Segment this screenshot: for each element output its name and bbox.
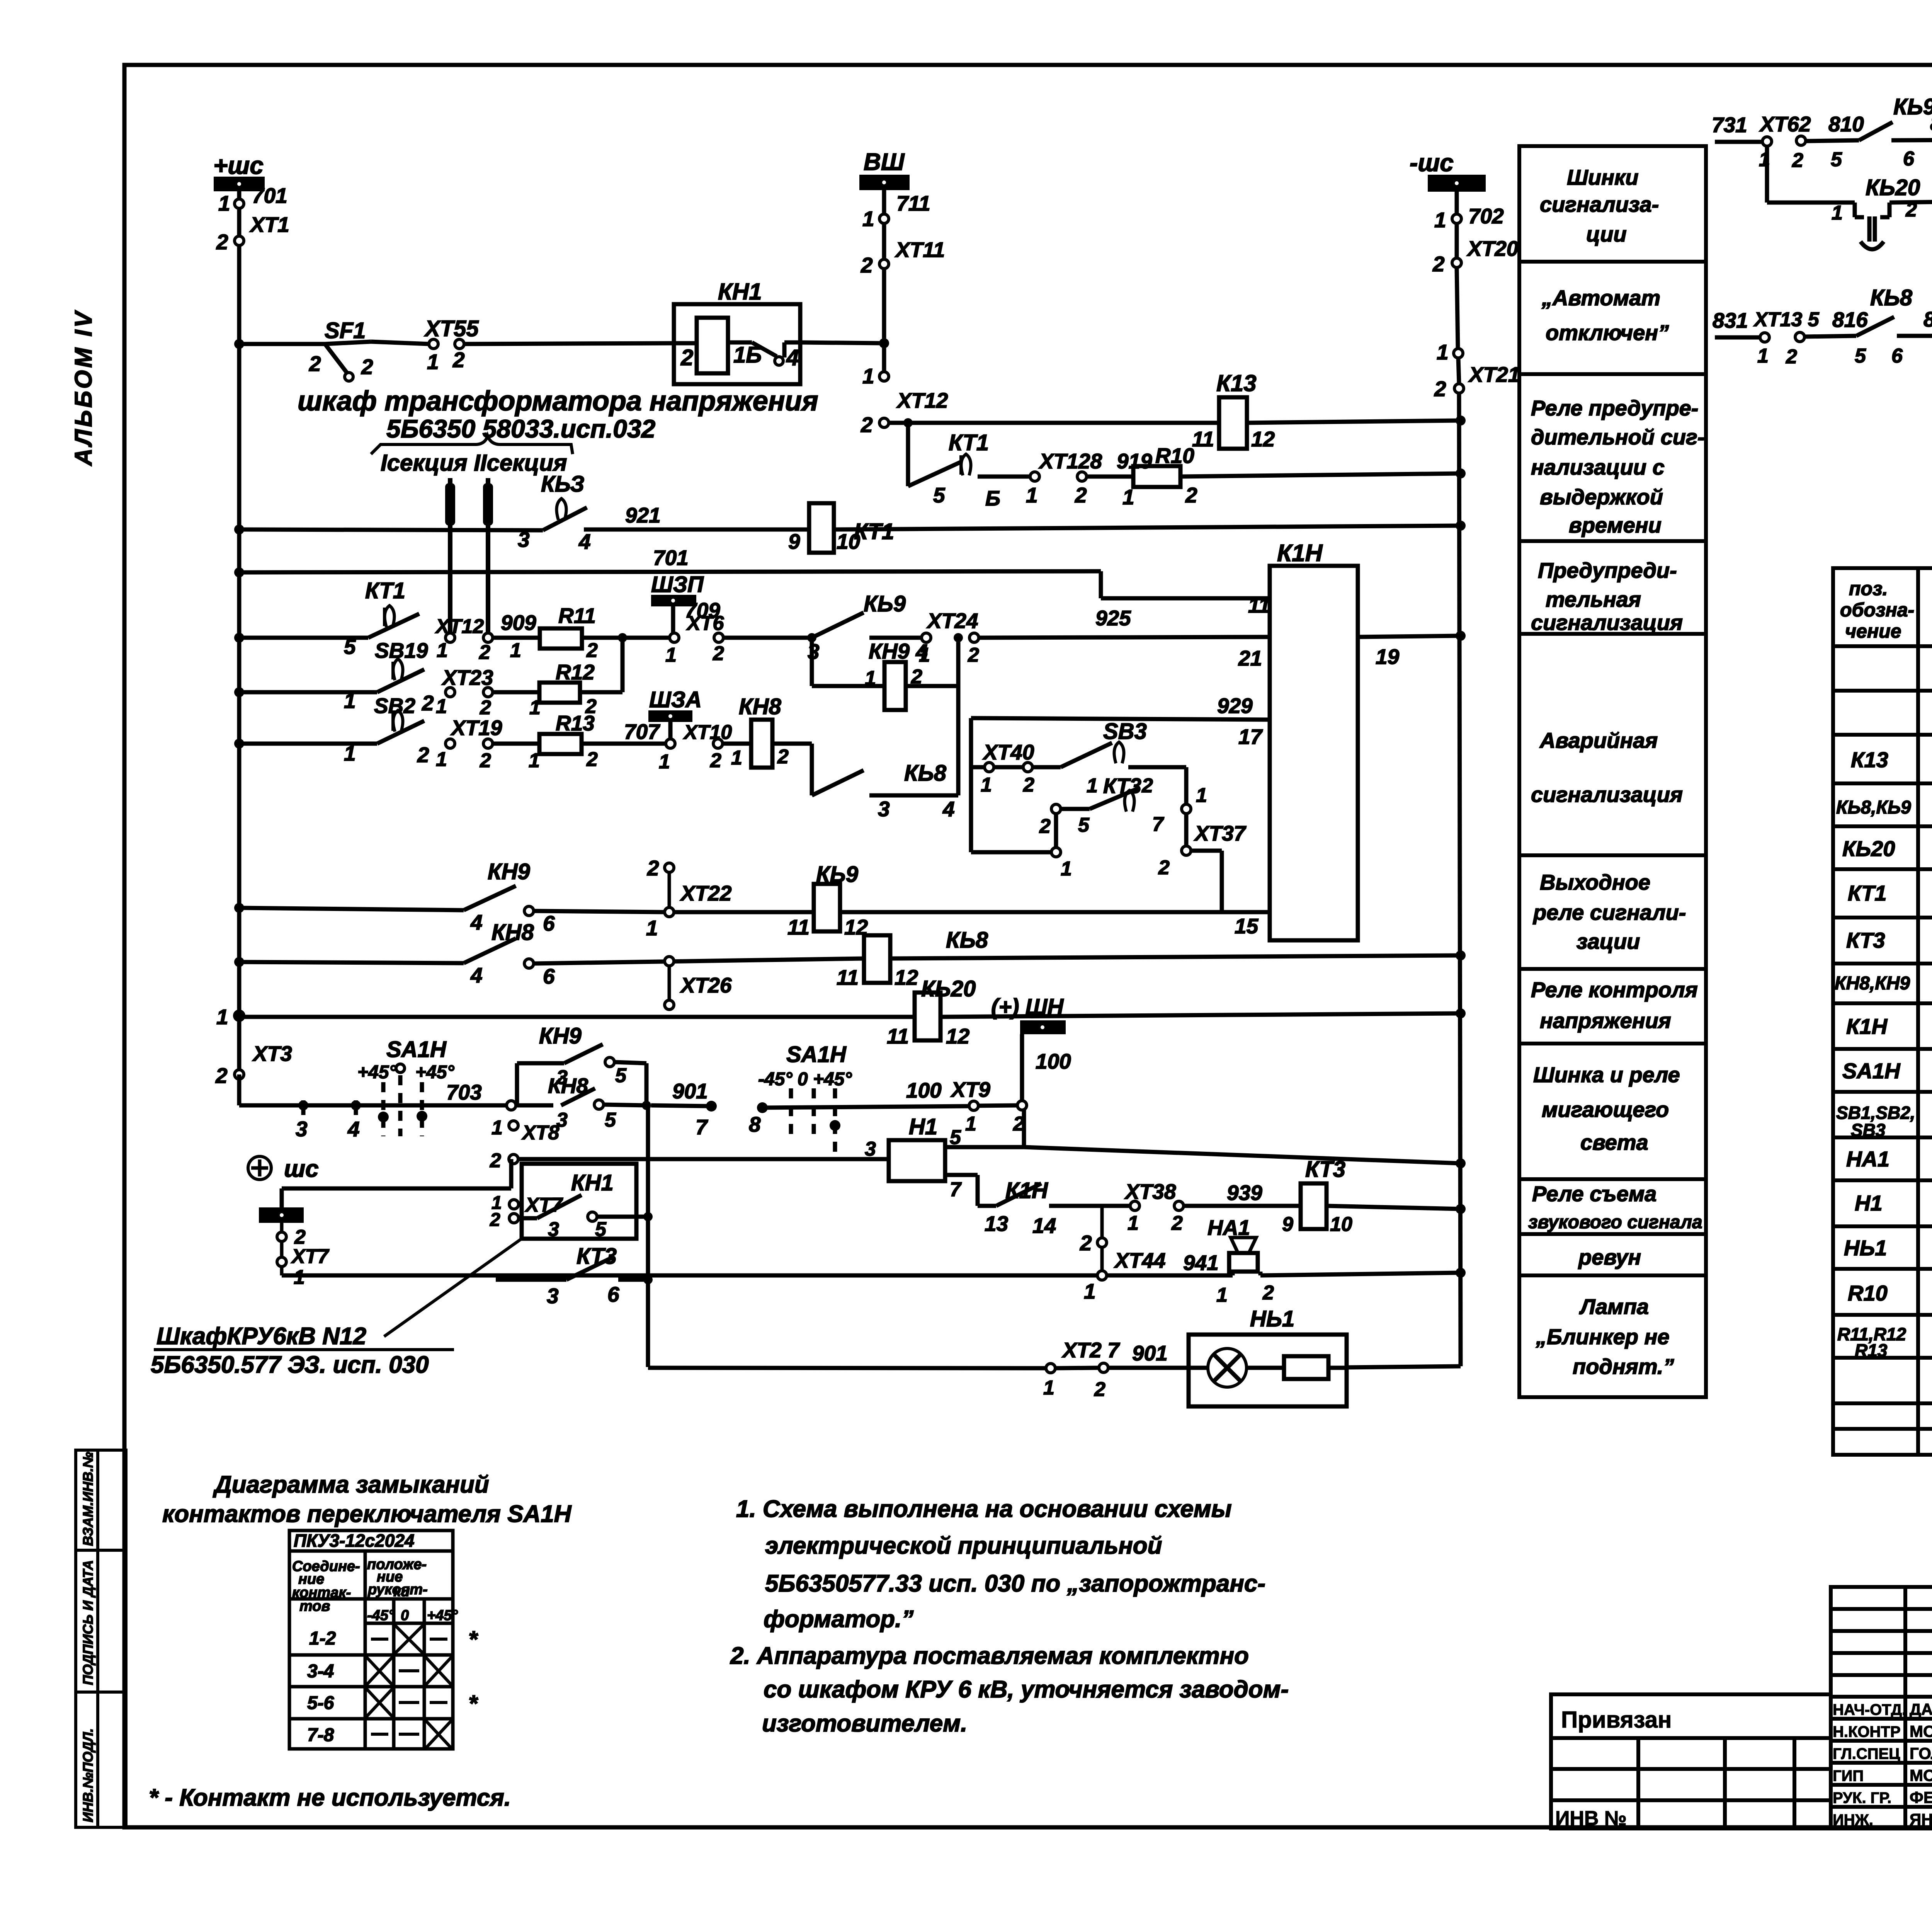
svg-text:реле сигнали-: реле сигнали- bbox=[1532, 900, 1686, 924]
svg-text:SВ3: SВ3 bbox=[1851, 1120, 1886, 1140]
svg-text:КН9: КН9 bbox=[539, 1023, 582, 1049]
svg-text:ВШ: ВШ bbox=[864, 149, 905, 175]
switch diagram table ПКУ3-12С2024 bbox=[289, 1531, 453, 1749]
wire top row 731 KL9 bbox=[1715, 139, 1932, 142]
svg-text:форматор.”: форматор.” bbox=[764, 1606, 913, 1633]
svg-text:11: 11 bbox=[1192, 427, 1214, 451]
svg-text:+45°: +45° bbox=[357, 1062, 396, 1083]
wire row8 bbox=[239, 742, 377, 746]
svg-text:1: 1 bbox=[862, 207, 874, 231]
svg-text:1: 1 bbox=[344, 741, 356, 765]
svg-text:3: 3 bbox=[556, 1109, 568, 1131]
wire bbox=[534, 911, 665, 912]
svg-text:SВ3: SВ3 bbox=[1103, 719, 1147, 744]
wire: left bus vertical bbox=[237, 191, 241, 1105]
notes text bbox=[730, 1496, 1289, 1737]
contact KH8 (4-6) bbox=[464, 920, 555, 988]
wire to ShZP stem bbox=[582, 636, 670, 640]
svg-text:2: 2 bbox=[710, 749, 721, 772]
ВШ supply bar bbox=[859, 149, 910, 190]
svg-text:7: 7 bbox=[950, 1178, 962, 1201]
feeder I секция bbox=[445, 478, 455, 638]
svg-text:2: 2 bbox=[713, 642, 724, 665]
svg-text:ХТ6: ХТ6 bbox=[686, 612, 724, 635]
wire right bus upper bbox=[1457, 267, 1458, 349]
svg-text:НЬ1: НЬ1 bbox=[1844, 1236, 1887, 1260]
svg-text:ХТ9: ХТ9 bbox=[950, 1078, 990, 1102]
svg-text:2: 2 bbox=[1262, 1282, 1274, 1304]
terminal XT27 bbox=[1043, 1338, 1168, 1401]
svg-text:ХТ22: ХТ22 bbox=[680, 881, 732, 905]
svg-text:ХТ40: ХТ40 bbox=[982, 740, 1034, 764]
svg-text:КН9: КН9 bbox=[869, 639, 910, 663]
wire bbox=[1087, 475, 1133, 479]
svg-text:ИНВ.№ПОДЛ.: ИНВ.№ПОДЛ. bbox=[80, 1728, 96, 1822]
svg-text:Шинка и реле: Шинка и реле bbox=[1533, 1062, 1680, 1087]
svg-text:ХТ7: ХТ7 bbox=[291, 1245, 329, 1268]
relay box KH1 (KRU cabinet) bbox=[490, 1164, 648, 1241]
row КЬ8,КЬ9 РП-23 bbox=[1836, 789, 1932, 818]
svg-text:19: 19 bbox=[1376, 645, 1400, 669]
heading Диаграмма замыканий bbox=[162, 1471, 572, 1527]
svg-text:1: 1 bbox=[919, 644, 930, 666]
svg-text:ПКУ3-12с2024: ПКУ3-12с2024 bbox=[294, 1531, 415, 1551]
svg-text:5Б6350.577 ЭЗ. исп. 030: 5Б6350.577 ЭЗ. исп. 030 bbox=[151, 1352, 429, 1378]
wire bbox=[371, 342, 429, 344]
svg-text:1: 1 bbox=[510, 639, 521, 662]
table header bbox=[1840, 578, 1932, 642]
svg-text:зации: зации bbox=[1577, 929, 1640, 953]
row R11,R12,R13 резистор bbox=[1837, 1324, 1932, 1360]
svg-text:7-8: 7-8 bbox=[307, 1725, 334, 1745]
svg-text:1: 1 bbox=[216, 1005, 228, 1029]
svg-text:2: 2 bbox=[680, 345, 693, 370]
wire row10 KH8 bbox=[239, 962, 464, 963]
bus bar ШН bbox=[991, 994, 1071, 1103]
switch SA1H section 7-8 (dashed) bbox=[749, 1042, 969, 1154]
terminal XT6 bbox=[665, 612, 724, 666]
svg-text:электрической принципиальной: электрической принципиальной bbox=[765, 1532, 1162, 1559]
contact KL3 bbox=[518, 472, 591, 553]
wire K1H pin19 to right bus bbox=[1358, 636, 1461, 637]
svg-text:2: 2 bbox=[861, 253, 873, 277]
svg-text:* - Контакт не используется: * - Контакт не используется. bbox=[149, 1784, 511, 1811]
relay coil KT3 (9-10) bbox=[1282, 1157, 1352, 1236]
terminal XT44 bbox=[1080, 1206, 1219, 1303]
svg-text:1: 1 bbox=[1832, 202, 1843, 224]
svg-text:6: 6 bbox=[543, 911, 555, 935]
title block texts bbox=[1555, 1700, 1932, 1830]
svg-text:поднят.”: поднят.” bbox=[1573, 1354, 1674, 1379]
horn HA1 bbox=[1207, 1216, 1274, 1306]
svg-text:12: 12 bbox=[946, 1024, 970, 1048]
svg-text:1Б: 1Б bbox=[733, 342, 762, 368]
svg-text:Привязан: Привязан bbox=[1561, 1707, 1672, 1733]
svg-text:4: 4 bbox=[470, 963, 483, 987]
terminal XT21 bbox=[1434, 340, 1520, 401]
svg-text:5: 5 bbox=[950, 1126, 961, 1149]
button SB1 bbox=[344, 710, 429, 767]
svg-text:чение: чение bbox=[1845, 620, 1901, 642]
svg-text:1: 1 bbox=[1043, 1377, 1054, 1399]
svg-text:+45°: +45° bbox=[427, 1607, 458, 1624]
bus bar ШЗА bbox=[624, 687, 702, 744]
svg-text:ГИП: ГИП bbox=[1833, 1767, 1864, 1784]
svg-text:2: 2 bbox=[1792, 149, 1803, 172]
svg-text:-45° 0 +45°: -45° 0 +45° bbox=[758, 1069, 852, 1090]
svg-text:100: 100 bbox=[906, 1078, 942, 1102]
relay box K1H bbox=[1270, 540, 1358, 940]
wire riser joining rows bbox=[956, 638, 961, 795]
wire bbox=[674, 910, 814, 914]
breaker SF1 bbox=[309, 318, 373, 381]
svg-text:Предупреди-: Предупреди- bbox=[1538, 558, 1677, 582]
brace and секция labels bbox=[371, 436, 573, 476]
svg-text:11: 11 bbox=[837, 965, 859, 989]
svg-text:ФЕДОРОВА: ФЕДОРОВА bbox=[1910, 1788, 1932, 1806]
svg-text:2: 2 bbox=[1432, 252, 1445, 276]
svg-text:НЬ1: НЬ1 bbox=[1250, 1306, 1294, 1331]
terminal XT10 bbox=[659, 721, 732, 773]
svg-text:тельная: тельная bbox=[1546, 587, 1641, 611]
relay coil K13 bbox=[1192, 370, 1275, 451]
svg-text:12: 12 bbox=[895, 965, 918, 989]
svg-text:15: 15 bbox=[1235, 914, 1259, 938]
terminal XT38 bbox=[1124, 1180, 1262, 1234]
time contact KT3 with XT37 bbox=[1039, 784, 1247, 912]
svg-text:6: 6 bbox=[1891, 345, 1903, 367]
terminal XT23 bbox=[436, 666, 493, 719]
svg-text:ХТ8: ХТ8 bbox=[521, 1122, 559, 1144]
svg-text:1: 1 bbox=[294, 1266, 305, 1289]
node dots on left bus bbox=[234, 339, 244, 1022]
svg-text:КЬ8,КЬ9: КЬ8,КЬ9 bbox=[1836, 797, 1911, 818]
svg-text:925: 925 bbox=[1095, 606, 1131, 630]
wire bbox=[1184, 1204, 1301, 1208]
wire 939 row bbox=[978, 1175, 996, 1206]
svg-text:К13: К13 bbox=[1851, 747, 1888, 772]
svg-text:3-4: 3-4 bbox=[307, 1661, 334, 1682]
svg-text:1: 1 bbox=[1087, 775, 1098, 797]
bus bar ШЗП bbox=[651, 572, 720, 634]
contact KT3 (3-6) bbox=[496, 1244, 648, 1308]
svg-text:5-6: 5-6 bbox=[307, 1693, 334, 1713]
svg-text:КН8: КН8 bbox=[739, 694, 782, 719]
row Н1 Прерыватель bbox=[1855, 1191, 1932, 1218]
row SA1H Переключатель bbox=[1842, 1057, 1932, 1083]
svg-text:4: 4 bbox=[470, 910, 483, 934]
svg-text:1: 1 bbox=[665, 644, 677, 666]
svg-text:ХТ2 7: ХТ2 7 bbox=[1061, 1338, 1120, 1362]
svg-text:ХТ23: ХТ23 bbox=[441, 666, 493, 690]
svg-text:2: 2 bbox=[1039, 815, 1051, 838]
svg-text:R10: R10 bbox=[1848, 1281, 1888, 1305]
svg-text:АЛЬБОМ IV: АЛЬБОМ IV bbox=[70, 309, 97, 466]
resistor R12 bbox=[529, 660, 597, 719]
svg-text:1: 1 bbox=[1216, 1284, 1228, 1306]
svg-text:обозна-: обозна- bbox=[1840, 599, 1914, 621]
svg-text:К1Н: К1Н bbox=[1277, 540, 1323, 567]
contact KL9 bbox=[1828, 94, 1932, 171]
svg-text:2. Аппаратура поставляемая: 2. Аппаратура поставляемая комплектно bbox=[730, 1643, 1249, 1669]
svg-text:КЬ8: КЬ8 bbox=[946, 928, 988, 953]
svg-text:ИНВ №: ИНВ № bbox=[1555, 1807, 1627, 1830]
contact KL8 (3-4) bbox=[812, 761, 958, 821]
svg-text:2: 2 bbox=[777, 746, 789, 768]
svg-text:12: 12 bbox=[1251, 427, 1275, 451]
time contact KT1 (5-6) bbox=[908, 430, 1000, 510]
svg-text:ГОЛЬЦМАН: ГОЛЬЦМАН bbox=[1910, 1744, 1932, 1762]
svg-text:КН1: КН1 bbox=[571, 1170, 614, 1195]
svg-text:2: 2 bbox=[1786, 346, 1797, 368]
svg-text:ХТ24: ХТ24 bbox=[926, 609, 978, 633]
wire to KL8 branch bbox=[772, 744, 812, 795]
svg-text:ХТ20: ХТ20 bbox=[1466, 237, 1519, 260]
svg-text:701: 701 bbox=[653, 546, 689, 570]
button SB2 bbox=[344, 659, 434, 718]
svg-text:2: 2 bbox=[861, 413, 873, 437]
svg-text:КН8,КН9: КН8,КН9 bbox=[1835, 973, 1910, 994]
feeder II секция bbox=[483, 478, 493, 638]
terminal XT40 bbox=[981, 740, 1034, 796]
svg-text:(+) ШН: (+) ШН bbox=[991, 994, 1064, 1020]
svg-text:ции: ции bbox=[1586, 222, 1627, 246]
svg-text:МОСЕЕНКО: МОСЕЕНКО bbox=[1910, 1722, 1932, 1740]
svg-text:2: 2 bbox=[586, 639, 598, 662]
svg-text:отключен”: отключен” bbox=[1546, 320, 1669, 345]
svg-text:-шс: -шс bbox=[1410, 149, 1454, 177]
svg-text:КЬ8: КЬ8 bbox=[1870, 285, 1913, 310]
wire 703 row (bus corner) bbox=[239, 1074, 511, 1105]
contact KH8 (3-5) on 703 row bbox=[516, 1074, 651, 1131]
svg-text:Диаграмма замыканий: Диаграмма замыканий bbox=[213, 1471, 489, 1498]
row SB1,SB2,SB3 Кнопка bbox=[1836, 1103, 1932, 1140]
leader line to cabinet caption bbox=[384, 1239, 522, 1336]
contact KL9 (3-4) bbox=[808, 591, 928, 664]
svg-text:ХТ26: ХТ26 bbox=[680, 973, 732, 997]
svg-text:810: 810 bbox=[1828, 112, 1864, 136]
svg-text:ВЗАМ.ИНВ.№: ВЗАМ.ИНВ.№ bbox=[80, 1452, 96, 1546]
svg-text:мигающего: мигающего bbox=[1542, 1097, 1669, 1122]
parts table bbox=[1833, 568, 1932, 1455]
wire row9 to K1H pin15 bbox=[840, 910, 1270, 914]
contact KL8 bbox=[1832, 285, 1932, 367]
wire HL1 row bbox=[648, 1366, 1461, 1368]
svg-text:шс: шс bbox=[284, 1156, 319, 1182]
svg-text:4: 4 bbox=[347, 1117, 360, 1141]
svg-text:ГЛ.СПЕЦ: ГЛ.СПЕЦ bbox=[1833, 1745, 1900, 1762]
wire row6 bbox=[239, 636, 368, 640]
wire row4 921 bbox=[239, 526, 1461, 530]
svg-text:831: 831 bbox=[1713, 308, 1748, 332]
time contact KT1 / button SB19 bbox=[344, 578, 428, 662]
svg-text:ХТ37: ХТ37 bbox=[1194, 821, 1247, 845]
svg-text:ХТ21: ХТ21 bbox=[1468, 363, 1520, 386]
+ШС supply bar bbox=[213, 152, 265, 191]
svg-text:2: 2 bbox=[1171, 1212, 1183, 1234]
svg-text:КЬ20: КЬ20 bbox=[921, 976, 976, 1001]
wire row3 drop bbox=[906, 423, 910, 486]
wire row11 KL20 bbox=[239, 1015, 915, 1019]
svg-text:5: 5 bbox=[933, 483, 946, 507]
wire row3 bbox=[978, 475, 1030, 479]
svg-text:2: 2 bbox=[647, 856, 659, 880]
wire riser to row6 bbox=[580, 638, 622, 692]
svg-text:напряжения: напряжения bbox=[1540, 1008, 1671, 1033]
wire to right bus bbox=[1327, 1206, 1461, 1209]
svg-text:КЬ9: КЬ9 bbox=[1893, 94, 1932, 119]
wire row 831 KL8 bbox=[1715, 335, 1932, 337]
svg-text:711: 711 bbox=[896, 191, 930, 215]
svg-text:R11: R11 bbox=[558, 604, 596, 628]
svg-text:ШЗА: ШЗА bbox=[649, 687, 702, 712]
row К1Н РТД-11-01-15 bbox=[1846, 1010, 1932, 1039]
svg-text:Б: Б bbox=[985, 486, 1000, 510]
svg-text:5: 5 bbox=[1855, 345, 1866, 367]
terminal XT121 bbox=[435, 611, 536, 664]
svg-text:ИНЖ.: ИНЖ. bbox=[1833, 1811, 1873, 1828]
svg-text:сигнализация: сигнализация bbox=[1531, 610, 1683, 635]
svg-text:Iсекция IIсекция: Iсекция IIсекция bbox=[381, 450, 567, 476]
terminal XT26 bbox=[665, 957, 732, 1010]
svg-text:КН1: КН1 bbox=[718, 279, 762, 305]
svg-text:ХТ55: ХТ55 bbox=[424, 316, 479, 341]
svg-text:2: 2 bbox=[215, 1064, 228, 1088]
terminal XT22 bbox=[646, 856, 732, 940]
svg-text:КЬ9: КЬ9 bbox=[864, 591, 906, 616]
svg-text:Шинки: Шинки bbox=[1567, 165, 1638, 189]
relay coil KT1 (9-10) bbox=[788, 503, 894, 553]
svg-text:Н.КОНТР: Н.КОНТР bbox=[1833, 1723, 1901, 1740]
svg-text:731: 731 bbox=[1712, 113, 1747, 137]
svg-text:17: 17 bbox=[1238, 725, 1263, 749]
svg-text:ХТ44: ХТ44 bbox=[1114, 1248, 1165, 1272]
svg-text:1: 1 bbox=[437, 639, 448, 662]
svg-text:11: 11 bbox=[887, 1024, 909, 1048]
wire row11 to right bus bbox=[940, 1013, 1461, 1017]
svg-text:8: 8 bbox=[749, 1112, 761, 1136]
row HL1 Арматура bbox=[1844, 1236, 1932, 1262]
svg-text:SF1: SF1 bbox=[325, 318, 366, 343]
wire bbox=[493, 742, 539, 746]
svg-text:дительной сиг-: дительной сиг- bbox=[1531, 425, 1704, 449]
svg-text:6: 6 bbox=[607, 1282, 619, 1306]
svg-text:нализации с: нализации с bbox=[1531, 455, 1665, 479]
svg-text:ШЗП: ШЗП bbox=[651, 572, 704, 597]
svg-text:701: 701 bbox=[252, 184, 287, 208]
svg-text:выдержкой: выдержкой bbox=[1540, 485, 1663, 509]
node labels 702 XT20 (left margin of column) bbox=[1528, 165, 1704, 1379]
svg-text:11: 11 bbox=[1248, 593, 1270, 617]
svg-text:ХТ12: ХТ12 bbox=[896, 388, 948, 412]
wire 925 into K1H pin 21 bbox=[979, 637, 1270, 638]
resistor R10 bbox=[1122, 444, 1197, 509]
svg-text:929: 929 bbox=[1217, 694, 1253, 718]
terminal XT1 bbox=[216, 184, 289, 254]
svg-text:2: 2 bbox=[361, 355, 373, 379]
svg-text:7: 7 bbox=[1152, 813, 1164, 836]
svg-text:5Б6350 58033.исп.032: 5Б6350 58033.исп.032 bbox=[386, 414, 656, 443]
svg-text:702: 702 bbox=[1468, 204, 1504, 228]
svg-text:R13: R13 bbox=[1855, 1340, 1888, 1360]
svg-text:+45°: +45° bbox=[415, 1062, 454, 1083]
svg-text:1: 1 bbox=[436, 748, 447, 771]
svg-text:1: 1 bbox=[1122, 485, 1134, 509]
loop relay KL20 bbox=[1767, 144, 1932, 217]
svg-text:1: 1 bbox=[218, 191, 230, 215]
svg-text:SА1Н: SА1Н bbox=[1842, 1059, 1901, 1083]
row R10 Резистор bbox=[1848, 1280, 1932, 1306]
relay coil KL8 (11-12) bbox=[837, 928, 988, 989]
svg-text:Реле контроля: Реле контроля bbox=[1531, 977, 1698, 1002]
svg-text:КТ1: КТ1 bbox=[949, 430, 989, 455]
svg-text:ХТ1: ХТ1 bbox=[249, 213, 289, 237]
relay coil KH9 branch bbox=[812, 638, 958, 710]
svg-text:1: 1 bbox=[492, 1117, 503, 1139]
svg-text:1: 1 bbox=[436, 695, 447, 718]
svg-text:поз.: поз. bbox=[1849, 578, 1888, 599]
svg-text:SА1Н: SА1Н bbox=[386, 1037, 447, 1062]
svg-text:5: 5 bbox=[595, 1218, 607, 1241]
svg-text:КЬЗ: КЬЗ bbox=[541, 472, 585, 497]
terminal XT135 bbox=[1713, 308, 1820, 368]
bus bar XT7 supply bbox=[259, 1207, 329, 1289]
svg-text:1: 1 bbox=[1437, 340, 1449, 364]
svg-text:1: 1 bbox=[1434, 208, 1446, 232]
svg-text:Н1: Н1 bbox=[1855, 1191, 1883, 1215]
svg-text:811: 811 bbox=[1930, 111, 1932, 135]
wire bbox=[1180, 473, 1461, 477]
svg-text:сигнализация: сигнализация bbox=[1531, 782, 1683, 807]
svg-text:ки: ки bbox=[393, 1583, 410, 1600]
svg-text:ХТ3: ХТ3 bbox=[252, 1042, 292, 1066]
svg-text:2: 2 bbox=[480, 749, 491, 772]
svg-text:1: 1 bbox=[1757, 345, 1769, 367]
svg-text:941: 941 bbox=[1183, 1251, 1219, 1275]
row КТ3 РВ-144 bbox=[1846, 924, 1932, 952]
svg-text:ШкафКРУ6кВ N12: ШкафКРУ6кВ N12 bbox=[156, 1323, 366, 1350]
terminal XT12 bbox=[861, 364, 948, 437]
svg-text:10: 10 bbox=[1330, 1213, 1352, 1236]
svg-text:703: 703 bbox=[446, 1080, 482, 1104]
svg-text:3: 3 bbox=[878, 797, 890, 821]
supply symbol ⊕ шс bbox=[248, 1156, 319, 1182]
svg-text:1. Схема выполнена на основ: 1. Схема выполнена на основании схемы bbox=[736, 1496, 1232, 1522]
svg-text:сигнализа-: сигнализа- bbox=[1540, 192, 1659, 216]
svg-text:КЬ20: КЬ20 bbox=[1866, 175, 1920, 200]
svg-text:КЬ20: КЬ20 bbox=[1842, 836, 1895, 861]
lamp HL1 bbox=[1189, 1306, 1347, 1406]
signal description column bbox=[1519, 146, 1706, 1397]
wire H1 pin5 to right bus bbox=[1024, 1147, 1461, 1163]
svg-text:2: 2 bbox=[216, 230, 228, 254]
switch SA1H section 3-4 (dashed) bbox=[357, 1037, 454, 1136]
svg-text:НАЧ-ОТД.: НАЧ-ОТД. bbox=[1833, 1701, 1906, 1718]
svg-text:времени: времени bbox=[1569, 513, 1662, 537]
svg-text:3: 3 bbox=[556, 1066, 568, 1089]
svg-text:21: 21 bbox=[1238, 646, 1262, 670]
svg-text:КТ1: КТ1 bbox=[1848, 881, 1886, 905]
svg-text:1: 1 bbox=[427, 350, 439, 374]
svg-text:*: * bbox=[468, 1691, 478, 1716]
svg-text:1-2: 1-2 bbox=[309, 1628, 336, 1649]
svg-text:1: 1 bbox=[659, 751, 670, 773]
relay coil KL20 (11-12) bbox=[887, 976, 976, 1048]
right bus -шс bbox=[1410, 149, 1486, 214]
svg-text:3: 3 bbox=[548, 1218, 559, 1241]
svg-text:901: 901 bbox=[672, 1079, 708, 1103]
svg-text:1: 1 bbox=[529, 696, 541, 719]
